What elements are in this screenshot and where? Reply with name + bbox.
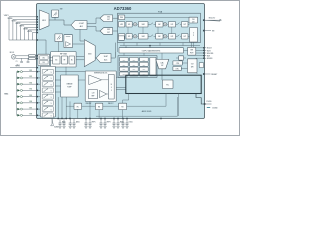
IC body AD73360 xyxy=(37,4,205,119)
svg-text:REG: REG xyxy=(143,69,146,71)
AFE box3 xyxy=(69,56,75,64)
svg-text:REFC: REFC xyxy=(92,122,96,124)
svg-text:VINP4: VINP4 xyxy=(27,31,32,33)
svg-text:VIN7: VIN7 xyxy=(29,107,32,109)
wire sw out 4 xyxy=(55,91,60,93)
wire row0 xyxy=(125,16,189,18)
ADC hexagon U3 xyxy=(100,15,113,22)
crystal X1 xyxy=(11,55,16,60)
svg-text:DRV: DRV xyxy=(191,67,194,69)
svg-text:VIN1: VIN1 xyxy=(29,70,32,72)
svg-text:DVDD: DVDD xyxy=(129,122,133,124)
chopper icon box xyxy=(55,34,63,42)
svg-text:REG: REG xyxy=(133,69,136,71)
label mclk xyxy=(10,52,15,54)
svg-text:DIV: DIV xyxy=(43,62,45,64)
svg-text:SINC: SINC xyxy=(107,29,110,31)
bus drop 1 xyxy=(123,94,129,104)
wire mux2 to adc xyxy=(95,57,96,59)
resistor R1 xyxy=(29,55,36,57)
filter chain row 2 boxes xyxy=(118,34,188,39)
svg-text:VIN2: VIN2 xyxy=(29,76,32,78)
wire chains to B2 xyxy=(188,24,190,36)
svg-text:REG: REG xyxy=(123,69,126,71)
inner gnd line xyxy=(96,97,177,116)
input staircase wires VINP/VINN xyxy=(4,15,38,40)
svg-text:VIN6: VIN6 xyxy=(29,101,32,103)
AFE box1 xyxy=(53,56,60,64)
svg-text:1.2V: 1.2V xyxy=(92,92,95,94)
bottom pin labels xyxy=(62,121,133,124)
svg-text:BG: BG xyxy=(55,60,57,62)
svg-text:S: S xyxy=(51,109,52,111)
wire mux output xyxy=(49,20,71,25)
wire hex1 to hexA xyxy=(87,18,100,24)
wire b2 to serial xyxy=(194,42,198,74)
svg-text:DEC: DEC xyxy=(158,24,161,26)
svg-text:S: S xyxy=(51,91,52,93)
register bank xyxy=(118,56,157,78)
svg-text:REG: REG xyxy=(133,60,136,62)
capacitor C1 xyxy=(16,58,23,62)
svg-text:DVDD: DVDD xyxy=(207,101,213,103)
svg-text:OUT: OUT xyxy=(183,24,186,26)
svg-text:C1: C1 xyxy=(16,61,18,63)
svg-text:HPF: HPF xyxy=(120,24,123,26)
clock box B1 xyxy=(189,17,198,23)
wire pin40 drop xyxy=(38,40,46,54)
AFE container xyxy=(51,52,76,67)
svg-text:PORT: PORT xyxy=(190,52,194,54)
wire refin xyxy=(10,65,38,68)
channel mux M2 xyxy=(84,40,95,67)
svg-text:DGND: DGND xyxy=(212,108,218,110)
buffer box xyxy=(64,35,73,48)
DAC trapezoid xyxy=(156,59,169,68)
ADC hexagon U5 xyxy=(96,54,111,63)
pin MCLK top xyxy=(203,17,222,21)
ref box 3 xyxy=(119,103,127,109)
wire s0 xyxy=(176,57,186,59)
svg-text:RC: RC xyxy=(77,106,79,108)
wire hexA out xyxy=(113,17,118,19)
pin DGND bottom right xyxy=(204,101,219,109)
wire seq right xyxy=(78,79,85,81)
ADC hexagon U4 xyxy=(100,28,113,35)
svg-text:M: M xyxy=(111,84,112,86)
wire ref row xyxy=(66,94,166,107)
small box D1 xyxy=(173,61,182,65)
wire dac down xyxy=(161,69,163,80)
svg-text:SINC: SINC xyxy=(142,24,145,26)
driver box B4 xyxy=(188,59,198,73)
bottom edge pins xyxy=(57,118,161,120)
calibration icon box xyxy=(52,9,63,18)
svg-text:S: S xyxy=(51,103,52,105)
wire osc to afe xyxy=(50,58,53,61)
part label AD73360 xyxy=(114,6,132,11)
ref box 1 xyxy=(74,103,82,109)
svg-text:OUT: OUT xyxy=(191,64,194,66)
wire bottom rail xyxy=(9,39,38,41)
svg-text:CLK: CLK xyxy=(192,19,195,21)
svg-text:PLL: PLL xyxy=(166,84,169,86)
svg-text:MCLKO: MCLKO xyxy=(209,17,216,19)
label sc top xyxy=(17,64,20,66)
wire xtal top xyxy=(16,55,29,57)
svg-text:SINC: SINC xyxy=(107,16,110,18)
svg-text:CTRL: CTRL xyxy=(176,63,180,65)
svg-text:VIN8: VIN8 xyxy=(29,114,32,116)
wire bar to serial xyxy=(184,49,188,51)
bus ticks xyxy=(124,42,192,56)
wire seq drops xyxy=(58,97,70,119)
svg-text:REFOUT: REFOUT xyxy=(108,103,114,105)
svg-text:FILT: FILT xyxy=(107,19,110,21)
filter inter-row wires xyxy=(128,27,172,34)
svg-text:PUMP: PUMP xyxy=(67,86,71,88)
bus drop 2 xyxy=(177,94,179,117)
svg-text:REG: REG xyxy=(120,17,123,19)
AFE box2 xyxy=(61,56,67,64)
wire adc out xyxy=(111,43,115,58)
wire afe out xyxy=(76,59,84,61)
small box D2 xyxy=(173,63,188,71)
output register bar xyxy=(119,48,184,53)
svg-text:S: S xyxy=(51,97,52,99)
svg-text:LPF: LPF xyxy=(128,24,131,26)
label refout xyxy=(108,103,114,105)
digital filter block xyxy=(118,10,201,42)
svg-text:LPF: LPF xyxy=(171,24,174,26)
PLL box xyxy=(162,80,173,89)
svg-text:REG: REG xyxy=(123,64,126,66)
power bus branch xyxy=(196,94,205,105)
pin RESET xyxy=(203,73,218,76)
power bus rectangle xyxy=(126,75,201,93)
wire comp out2 xyxy=(116,88,126,90)
svg-text:MUX: MUX xyxy=(88,53,91,55)
svg-text:SER: SER xyxy=(190,50,193,52)
wire afe out2 xyxy=(76,55,84,57)
reference block with comparators xyxy=(85,71,116,101)
svg-text:LPF: LPF xyxy=(171,36,174,38)
serial interface box xyxy=(188,47,196,55)
label agnd dgnd xyxy=(142,110,152,113)
oscillator block xyxy=(38,54,50,65)
svg-text:REG: REG xyxy=(123,60,126,62)
bus wire 1 xyxy=(120,45,200,47)
wire comp drops xyxy=(78,101,123,118)
label refcap xyxy=(86,102,92,105)
wire icon box drop xyxy=(54,17,56,20)
svg-text:REF: REF xyxy=(92,95,95,97)
svg-text:S: S xyxy=(51,84,52,86)
svg-text:DEC: DEC xyxy=(158,36,161,38)
wire buffer out xyxy=(73,43,85,45)
resistor R2 xyxy=(29,57,36,59)
wire hexB out xyxy=(113,30,118,32)
wire chopper drop xyxy=(58,42,60,52)
svg-text:OSC: OSC xyxy=(42,58,45,60)
svg-text:REG: REG xyxy=(143,64,146,66)
svg-text:U: U xyxy=(111,87,112,89)
svg-text:VIN5: VIN5 xyxy=(29,95,32,97)
svg-text:REFERENCE BLOCK: REFERENCE BLOCK xyxy=(94,73,107,75)
small box S0 xyxy=(179,56,184,60)
svg-text:SC1: SC1 xyxy=(17,64,20,66)
svg-text:REG: REG xyxy=(123,74,126,76)
svg-text:16-BIT: 16-BIT xyxy=(104,56,108,58)
svg-text:S: S xyxy=(51,116,52,118)
svg-text:RF: RF xyxy=(64,60,66,62)
svg-text:RB: RB xyxy=(98,106,100,108)
svg-text:AD73360: AD73360 xyxy=(114,6,132,11)
ADC hexagon U2 xyxy=(71,21,87,30)
input rail xyxy=(4,72,17,116)
switch bank SW1-SW8 xyxy=(40,66,55,117)
wire xtal bottom xyxy=(16,57,29,59)
wire hex1 to hexB xyxy=(87,27,100,32)
serial pins SCLK SDO SDOFS SDI SDIFS xyxy=(196,47,214,60)
pin SE xyxy=(203,30,215,33)
svg-text:FILT: FILT xyxy=(107,32,110,34)
filter row0 box xyxy=(118,15,124,20)
svg-text:LPF: LPF xyxy=(128,36,131,38)
input mux M1 xyxy=(40,10,50,30)
sequencer box xyxy=(61,75,79,97)
wire hex1 down xyxy=(80,29,84,41)
wire comp out1 xyxy=(116,76,126,78)
outer frame xyxy=(1,1,240,136)
wire seq top xyxy=(65,67,67,75)
svg-text:BU: BU xyxy=(71,60,73,62)
filter row3 box xyxy=(118,36,124,40)
svg-text:CTRL: CTRL xyxy=(175,69,179,71)
wire sw out 2 xyxy=(55,79,60,81)
decoupling capacitors bottom xyxy=(58,119,128,129)
bus junction dot xyxy=(149,45,151,47)
svg-text:S: S xyxy=(51,72,52,74)
wire r2 to pin xyxy=(35,58,38,60)
svg-text:0.1-BIT: 0.1-BIT xyxy=(79,23,84,25)
analog input pins VIN1-VIN8 xyxy=(17,70,41,117)
wire sw out 1 xyxy=(55,71,85,73)
page background xyxy=(0,0,240,136)
wire dac top xyxy=(161,53,163,59)
svg-text:RESET: RESET xyxy=(211,74,218,76)
svg-text:SDIFS: SDIFS xyxy=(207,58,213,60)
filter chain row 1 boxes xyxy=(118,22,188,27)
svg-text:REG: REG xyxy=(133,64,136,66)
ref box 2 xyxy=(95,103,102,109)
wire r1 to pin xyxy=(35,55,38,57)
svg-text:VIN4: VIN4 xyxy=(29,89,32,91)
capacitor C2 xyxy=(27,58,30,62)
svg-text:S: S xyxy=(51,78,52,80)
wire agnd stub xyxy=(51,119,60,129)
wire adc out2 xyxy=(115,43,117,57)
wire sw out 3 xyxy=(55,85,60,87)
small box B5 xyxy=(199,63,203,68)
svg-text:REG: REG xyxy=(143,60,146,62)
serial out box B2 xyxy=(190,28,198,43)
svg-text:OUT: OUT xyxy=(183,36,186,38)
svg-text:X: X xyxy=(111,90,112,92)
svg-text:P: P xyxy=(193,35,194,37)
svg-text:SINC: SINC xyxy=(142,36,145,38)
svg-text:DIV: DIV xyxy=(192,21,194,23)
svg-text:VIN3: VIN3 xyxy=(29,82,32,84)
